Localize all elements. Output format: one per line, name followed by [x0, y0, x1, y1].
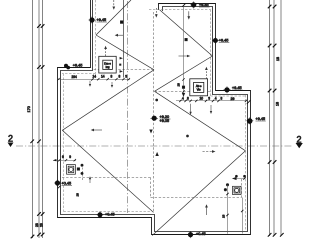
level marker wall W1	[89, 17, 96, 24]
svg-text:brg: brg	[106, 65, 110, 69]
vent C square dot	[77, 168, 79, 170]
svg-text:+9.45: +9.45	[73, 64, 83, 68]
level marker W6	[187, 231, 194, 238]
tick on W7	[247, 100, 251, 104]
interior line right of vent	[242, 198, 244, 234]
svg-text:10: 10	[200, 96, 204, 100]
interior line right wing vertical	[183, 6, 185, 94]
small arrow right at interior line	[179, 55, 191, 58]
dim row vent C	[53, 155, 76, 161]
hidden outline dashed step vertical	[150, 178, 152, 198]
vent C lower left	[67, 165, 76, 175]
roof hip corner to P6	[160, 10, 213, 56]
vent D dot left	[224, 189, 226, 191]
svg-text:4: 4	[182, 96, 184, 100]
svg-text:+9.45: +9.45	[97, 18, 107, 22]
roof hip P5 to P4	[96, 35, 154, 70]
svg-text:+9.45: +9.45	[199, 3, 209, 7]
svg-text:+0.45: +0.45	[105, 212, 115, 216]
right dimension chain line 1	[269, 0, 271, 236]
svg-text:14: 14	[93, 75, 97, 79]
dot near P4	[156, 99, 158, 101]
hidden outline dashed lower left	[62, 177, 151, 179]
slope arrow down dashed strip east	[155, 8, 158, 18]
svg-text:3: 3	[208, 96, 210, 100]
svg-text:+9.45: +9.45	[232, 86, 242, 90]
level marker W3	[54, 180, 61, 187]
left dimension chain line 3	[42, 0, 44, 238]
vertical centerline	[127, 1, 129, 213]
square on hip	[185, 38, 187, 40]
roof hip P5 up	[96, 0, 131, 35]
hidden wall dashed from node P4 to left	[93, 69, 154, 71]
vent D lower right	[233, 186, 242, 194]
mini dim x227 bottom wing	[226, 184, 228, 186]
roof valley P3 to bottom corner	[62, 130, 153, 212]
svg-text:14: 14	[101, 75, 105, 79]
dimension ticks left chain	[30, 24, 44, 238]
section marker 2 left	[8, 134, 14, 148]
level marker top wall	[190, 1, 197, 8]
svg-text:Vie: Vie	[197, 88, 201, 92]
left dimension chain line 2	[38, 0, 40, 238]
small arrow down notch b	[210, 105, 212, 114]
hidden outline dashed riser	[241, 179, 243, 198]
hidden wall dashed vertical center	[153, 12, 155, 212]
slope arrow down right wing	[187, 11, 190, 19]
slope arrow up bottom wing	[205, 204, 208, 215]
svg-text:8: 8	[187, 96, 189, 100]
slope arrow right wing	[203, 150, 216, 153]
roof hip P2 to bottom corner	[152, 151, 245, 236]
right dimension chain line 3	[280, 0, 282, 236]
svg-text:294: 294	[72, 75, 78, 79]
svg-text:+9.45: +9.45	[256, 117, 266, 121]
svg-text:9: 9	[69, 155, 71, 159]
slope arrow left wing	[91, 129, 102, 132]
svg-text:+9.05: +9.05	[160, 119, 170, 123]
svg-text:+0.45: +0.45	[62, 182, 72, 186]
svg-text:4: 4	[215, 96, 217, 100]
svg-text:8: 8	[119, 75, 121, 79]
level marker W8	[224, 86, 231, 93]
vent C dashed line	[82, 164, 84, 180]
svg-text:8: 8	[221, 96, 223, 100]
svg-text:170: 170	[27, 106, 31, 112]
chimney B right wing	[190, 79, 208, 96]
slope arrow up dashed near chimney B	[205, 67, 208, 79]
left dimension chain line 1	[32, 0, 34, 238]
slope arrow down top strip	[112, 0, 115, 10]
level marker W2 corner	[64, 64, 70, 70]
black square on ridge	[120, 21, 123, 24]
svg-text:29: 29	[231, 97, 235, 101]
tick on W3 below marker	[58, 186, 60, 188]
hidden outline dashed lower right	[151, 197, 242, 199]
tick on top wall	[182, 4, 185, 7]
roof hip P1 to P6	[155, 56, 213, 91]
level marker W9	[212, 37, 219, 44]
svg-text:8: 8	[111, 75, 113, 79]
svg-text:+9.45: +9.45	[219, 38, 229, 42]
right dimension chain line 2	[273, 0, 275, 236]
dimension ticks right chain	[268, 5, 284, 237]
ridge line top strip	[123, 0, 125, 78]
roof hip P3 to P4	[62, 70, 154, 131]
small arrow down at W2 dim a	[89, 81, 91, 87]
ridge mini arrows	[119, 57, 123, 73]
svg-text:18: 18	[76, 193, 80, 197]
hidden wall dashed from node P1 to right	[155, 91, 213, 93]
building inner wall	[61, 0, 248, 232]
dim row under W8	[176, 96, 247, 102]
small arrow up at hidden line	[89, 176, 91, 183]
chimney A upper left	[99, 56, 116, 73]
section marker 2 right	[296, 135, 303, 149]
level marker W4	[97, 211, 104, 218]
svg-text:18: 18	[222, 214, 226, 218]
roof valley P1 to P2	[155, 91, 246, 151]
svg-text:28: 28	[39, 223, 43, 227]
svg-text:18: 18	[276, 57, 280, 61]
svg-text:18: 18	[176, 83, 180, 87]
svg-text:18: 18	[276, 102, 280, 106]
dot on hidden line	[150, 130, 152, 133]
dim row under W2	[57, 75, 130, 81]
building outer wall	[58, 0, 251, 235]
svg-text:3: 3	[125, 75, 127, 79]
vent D dim above	[233, 178, 246, 180]
small arrow down at W2 dim b	[111, 82, 113, 88]
slope arrow left upper	[115, 34, 123, 37]
eave dashed left wing	[62, 0, 151, 212]
svg-text:Air-e: Air-e	[196, 84, 202, 88]
small arrow down notch a	[189, 104, 191, 115]
level marker W7	[246, 117, 253, 124]
slope arrow up dashed strip	[104, 46, 107, 56]
svg-text:6: 6	[62, 155, 64, 159]
dot right wing	[187, 135, 189, 137]
svg-text:2: 2	[8, 134, 13, 144]
tick on interior line 242	[241, 210, 243, 212]
horizontal section centerline	[16, 145, 293, 147]
svg-text:Dm-e: Dm-e	[104, 61, 111, 65]
eave dashed right wing top	[149, 10, 246, 231]
svg-text:+0.45: +0.45	[196, 232, 206, 236]
level marker node ridge	[150, 116, 158, 121]
mini dim chimney B left	[182, 78, 184, 92]
